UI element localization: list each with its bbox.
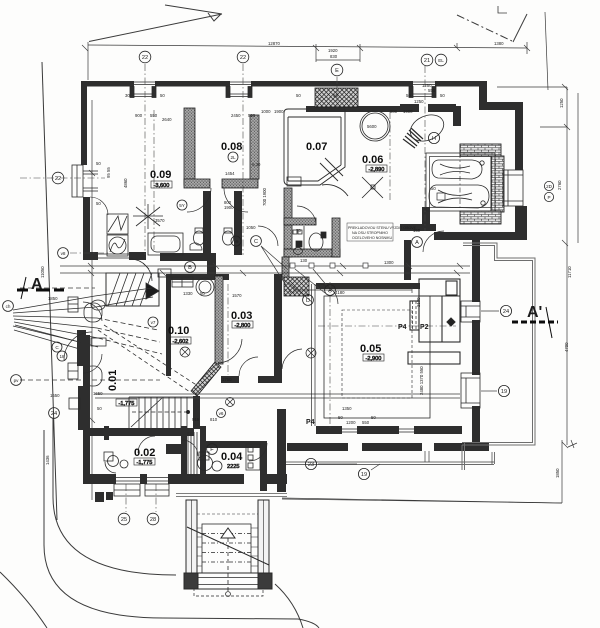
svg-text:1920: 1920 bbox=[328, 48, 338, 53]
svg-text:1380: 1380 bbox=[494, 41, 504, 46]
svg-text:18: 18 bbox=[59, 354, 65, 359]
svg-text:OCELOVEHO NOSNIKU: OCELOVEHO NOSNIKU bbox=[352, 236, 393, 240]
svg-text:50: 50 bbox=[333, 93, 338, 98]
svg-text:550: 550 bbox=[248, 113, 256, 118]
svg-text:-1,775: -1,775 bbox=[137, 460, 153, 466]
svg-text:75: 75 bbox=[296, 228, 301, 233]
svg-text:0.05: 0.05 bbox=[360, 343, 381, 355]
svg-text:0.08: 0.08 bbox=[221, 141, 242, 153]
svg-text:22: 22 bbox=[142, 55, 148, 61]
svg-text:1750: 1750 bbox=[222, 377, 232, 382]
svg-text:1454: 1454 bbox=[225, 171, 235, 176]
svg-text:550: 550 bbox=[362, 420, 370, 425]
svg-text:5Y: 5Y bbox=[179, 203, 185, 208]
svg-text:A: A bbox=[328, 288, 332, 294]
svg-text:12870: 12870 bbox=[268, 41, 281, 46]
svg-text:4180: 4180 bbox=[335, 290, 345, 295]
svg-text:2450: 2450 bbox=[231, 113, 241, 118]
svg-text:2640: 2640 bbox=[162, 117, 172, 122]
svg-text:23: 23 bbox=[308, 462, 314, 468]
svg-text:C: C bbox=[254, 239, 258, 245]
svg-text:EL: EL bbox=[438, 58, 444, 63]
svg-text:50: 50 bbox=[431, 186, 436, 191]
svg-text:95 55: 95 55 bbox=[106, 167, 111, 178]
svg-text:F: F bbox=[210, 447, 214, 453]
svg-text:28: 28 bbox=[150, 517, 156, 523]
svg-text:2225: 2225 bbox=[227, 464, 239, 470]
svg-text:915: 915 bbox=[192, 417, 200, 422]
svg-text:1850: 1850 bbox=[48, 296, 58, 301]
svg-text:0.10: 0.10 bbox=[168, 325, 189, 337]
svg-text:50: 50 bbox=[371, 415, 376, 420]
svg-text:6,30: 6,30 bbox=[252, 162, 261, 167]
svg-text:P2: P2 bbox=[420, 324, 429, 331]
svg-text:v7: v7 bbox=[151, 320, 156, 325]
svg-text:11710: 11710 bbox=[567, 266, 572, 278]
svg-text:P: P bbox=[547, 195, 550, 200]
svg-text:50: 50 bbox=[97, 406, 102, 411]
svg-text:A': A' bbox=[527, 304, 542, 321]
svg-text:50: 50 bbox=[440, 93, 445, 98]
svg-text:50: 50 bbox=[160, 93, 165, 98]
svg-text:130: 130 bbox=[300, 258, 308, 263]
svg-text:900: 900 bbox=[135, 113, 143, 118]
svg-text:24: 24 bbox=[503, 309, 509, 315]
svg-text:2L: 2L bbox=[230, 155, 236, 160]
svg-text:1900: 1900 bbox=[403, 109, 413, 114]
svg-text:50: 50 bbox=[96, 161, 101, 166]
svg-text:830: 830 bbox=[330, 54, 338, 59]
svg-text:24: 24 bbox=[51, 411, 57, 417]
svg-text:50: 50 bbox=[338, 415, 343, 420]
svg-text:800: 800 bbox=[390, 109, 398, 114]
svg-text:1300: 1300 bbox=[384, 260, 394, 265]
svg-text:2480 1370 550: 2480 1370 550 bbox=[419, 366, 424, 395]
svg-text:30: 30 bbox=[125, 93, 130, 98]
svg-text:4860: 4860 bbox=[123, 178, 128, 188]
svg-text:19: 19 bbox=[361, 472, 367, 478]
svg-text:5600: 5600 bbox=[367, 124, 377, 129]
svg-text:1050: 1050 bbox=[246, 225, 256, 230]
svg-text:0.06: 0.06 bbox=[362, 154, 383, 166]
svg-text:P4: P4 bbox=[398, 324, 407, 331]
svg-text:2760: 2760 bbox=[557, 180, 562, 190]
svg-text:50: 50 bbox=[200, 291, 205, 296]
svg-text:H: H bbox=[432, 136, 436, 142]
svg-text:19: 19 bbox=[501, 389, 507, 395]
svg-text:PREKLADOVOU STENU VYZDIT OSOVE: PREKLADOVOU STENU VYZDIT OSOVE bbox=[348, 226, 417, 230]
svg-text:E: E bbox=[335, 68, 339, 74]
svg-text:1000: 1000 bbox=[261, 109, 271, 114]
svg-text:2D: 2D bbox=[546, 184, 553, 189]
svg-text:A: A bbox=[415, 240, 419, 246]
svg-text:0.09: 0.09 bbox=[150, 169, 171, 181]
svg-text:1330: 1330 bbox=[183, 291, 193, 296]
svg-text:4700: 4700 bbox=[564, 342, 569, 352]
svg-text:3570: 3570 bbox=[155, 218, 165, 223]
svg-text:22: 22 bbox=[55, 176, 61, 182]
svg-text:1350: 1350 bbox=[342, 406, 352, 411]
svg-text:50: 50 bbox=[96, 201, 101, 206]
svg-text:21: 21 bbox=[424, 58, 430, 64]
svg-text:810: 810 bbox=[210, 417, 218, 422]
svg-text:1900: 1900 bbox=[224, 205, 234, 210]
svg-text:0.01: 0.01 bbox=[107, 370, 119, 391]
svg-text:-2,602: -2,602 bbox=[173, 339, 189, 345]
svg-text:2130: 2130 bbox=[416, 297, 421, 307]
svg-text:50: 50 bbox=[296, 93, 301, 98]
svg-text:1436: 1436 bbox=[45, 455, 50, 465]
svg-text:22: 22 bbox=[240, 55, 246, 61]
svg-text:1200: 1200 bbox=[346, 420, 356, 425]
svg-text:NA OSU STROPNIHO: NA OSU STROPNIHO bbox=[352, 231, 388, 235]
svg-text:0.03: 0.03 bbox=[231, 310, 252, 322]
svg-text:v6: v6 bbox=[219, 411, 224, 416]
svg-text:700 1900: 700 1900 bbox=[262, 187, 267, 206]
svg-text:1850: 1850 bbox=[555, 468, 560, 478]
svg-text:50: 50 bbox=[406, 93, 411, 98]
svg-text:B: B bbox=[188, 265, 192, 271]
svg-text:1650: 1650 bbox=[50, 393, 60, 398]
svg-text:0.04: 0.04 bbox=[221, 451, 243, 463]
svg-text:-2,800: -2,800 bbox=[235, 323, 251, 329]
svg-text:1250: 1250 bbox=[414, 99, 424, 104]
svg-text:1650: 1650 bbox=[93, 391, 103, 396]
svg-text:550: 550 bbox=[150, 113, 158, 118]
svg-text:0.07: 0.07 bbox=[306, 141, 327, 153]
svg-text:v9: v9 bbox=[234, 239, 239, 244]
svg-text:-3,600: -3,600 bbox=[154, 183, 170, 189]
svg-text:-1,775: -1,775 bbox=[119, 401, 135, 407]
svg-text:1250: 1250 bbox=[559, 98, 564, 108]
svg-text:ch: ch bbox=[6, 304, 11, 309]
svg-text:P4: P4 bbox=[306, 419, 315, 426]
svg-text:-2,890: -2,890 bbox=[369, 167, 385, 173]
svg-text:25: 25 bbox=[121, 517, 127, 523]
svg-text:D: D bbox=[306, 298, 310, 304]
svg-text:0.02: 0.02 bbox=[134, 447, 155, 459]
svg-text:-2,900: -2,900 bbox=[366, 356, 382, 362]
svg-text:pv: pv bbox=[14, 378, 20, 383]
svg-text:1900: 1900 bbox=[274, 109, 284, 114]
svg-text:v8: v8 bbox=[61, 251, 66, 256]
svg-text:1570: 1570 bbox=[232, 293, 242, 298]
svg-text:550: 550 bbox=[428, 88, 436, 93]
